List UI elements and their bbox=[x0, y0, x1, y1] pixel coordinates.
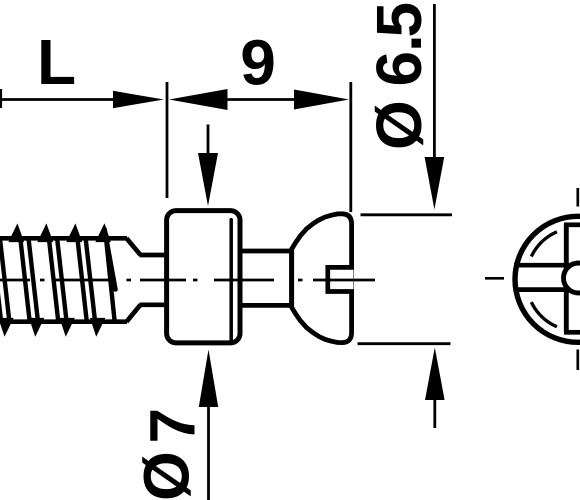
end view slot top line bbox=[514, 263, 580, 268]
thread core top line bbox=[0, 236, 127, 241]
centerline horizontal (dash-dot) bbox=[0, 278, 504, 280]
thread runout line bbox=[105, 229, 116, 290]
thread teeth bottom bbox=[1, 320, 103, 333]
neck bottom line bbox=[140, 302, 168, 307]
end view cross slot top cap bbox=[564, 222, 580, 227]
collar bbox=[167, 211, 240, 343]
dimension line Ø7 top bbox=[207, 125, 210, 155]
svg-text:Ø: Ø bbox=[131, 451, 203, 500]
svg-text:9: 9 bbox=[240, 26, 276, 98]
dimension line Ø7 bottom bbox=[207, 406, 210, 500]
dome arc lower bbox=[531, 302, 557, 327]
end view cross slot left edge bbox=[564, 225, 569, 332]
dimension line Ø6.5 top bbox=[433, 4, 436, 158]
head left face bbox=[289, 249, 294, 309]
svg-text:Ø: Ø bbox=[363, 100, 435, 150]
head slot notch bbox=[328, 267, 354, 291]
dimension line Ø6.5 bottom bbox=[433, 399, 436, 428]
extension line head bottom bbox=[358, 342, 451, 345]
shaft bottom line bbox=[240, 303, 294, 308]
dimension line L bbox=[0, 98, 116, 101]
head outline bbox=[292, 214, 352, 343]
end view slot bottom line bbox=[514, 287, 580, 292]
arrowhead Ø6.5 up bbox=[425, 348, 445, 401]
svg-text:5: 5 bbox=[363, 2, 435, 38]
shaft top line bbox=[240, 249, 294, 254]
cone bottom bbox=[127, 305, 141, 322]
arrowhead L right bbox=[113, 91, 164, 108]
extension line between L and 9 bbox=[166, 82, 169, 198]
end view cross slot bottom cap bbox=[564, 330, 580, 335]
end view vertical centerline top bbox=[576, 188, 579, 207]
end view center circle bbox=[564, 263, 580, 293]
collar chamfer line bbox=[229, 220, 233, 341]
arrowhead Ø7 up bbox=[199, 350, 218, 408]
cone top bbox=[127, 238, 141, 255]
arrowhead 9 right bbox=[294, 90, 349, 110]
thread core bottom line bbox=[0, 319, 127, 324]
arrowhead Ø6.5 down bbox=[425, 157, 445, 210]
dimension line 9 bbox=[226, 98, 295, 101]
extension line head top bbox=[361, 213, 453, 216]
thread flank lines bbox=[0, 240, 114, 320]
dome arc upper bbox=[531, 232, 557, 257]
svg-text:7: 7 bbox=[137, 408, 209, 444]
neck top line bbox=[140, 253, 168, 258]
end view outer circle bbox=[515, 216, 580, 342]
thread teeth top bbox=[11, 228, 109, 241]
extension line tick at left edge bbox=[0, 89, 2, 108]
svg-text:6: 6 bbox=[363, 51, 435, 87]
end view vertical centerline bottom bbox=[576, 350, 579, 371]
arrowhead 9 left bbox=[169, 89, 228, 110]
svg-text:L: L bbox=[37, 26, 76, 98]
extension line right of 9 bbox=[349, 82, 352, 212]
arrowhead Ø7 down bbox=[198, 153, 218, 206]
